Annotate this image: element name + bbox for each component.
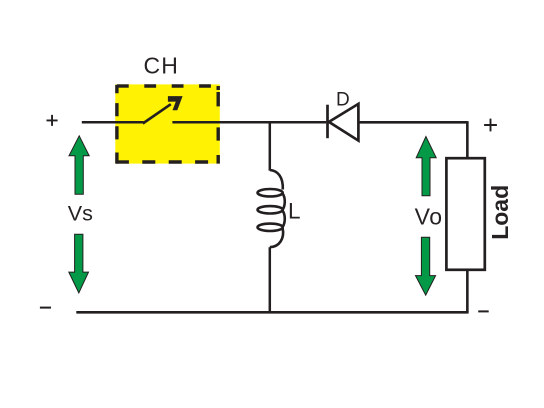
inductor L coil <box>258 170 285 247</box>
output positive terminal + <box>484 119 497 132</box>
switch blade <box>143 104 171 123</box>
wire: source positive terminal to switch pivot <box>82 121 144 124</box>
source negative terminal - <box>40 307 51 309</box>
wire: inductor to bottom rail <box>269 247 272 312</box>
node: switch/diode/inductor junction <box>269 122 272 170</box>
source voltage arrow Vs up <box>69 136 89 194</box>
label Vo <box>415 203 443 229</box>
source positive terminal + <box>47 115 58 126</box>
output negative terminal - <box>478 310 489 312</box>
output voltage arrow Vo up <box>416 137 436 196</box>
label CH <box>143 52 179 78</box>
svg-text:CH: CH <box>143 52 179 78</box>
wire: bottom rail <box>76 311 468 314</box>
switch CH dashed border <box>116 85 218 164</box>
switch CH highlight box (yellow fill) <box>115 84 220 163</box>
output voltage arrow Vo down <box>416 237 436 295</box>
load resistor rectangle <box>446 158 484 270</box>
wire: diode to output corner and down to load <box>358 121 467 158</box>
svg-text:Load: Load <box>487 185 513 240</box>
switch blade arrowhead <box>168 96 183 110</box>
label D <box>336 90 350 111</box>
svg-text:Vs: Vs <box>68 202 93 226</box>
label Vs <box>68 202 93 226</box>
svg-text:D: D <box>336 90 350 111</box>
label L <box>288 198 301 223</box>
label Load (rotated) <box>487 185 513 240</box>
diode D triangle <box>329 104 359 141</box>
svg-text:L: L <box>288 198 301 223</box>
wire: switch fixed contact to diode <box>172 121 326 124</box>
source voltage arrow Vs down <box>69 234 89 293</box>
svg-text:Vo: Vo <box>415 203 443 229</box>
diode D cathode bar <box>326 105 329 139</box>
wire: load bottom lead <box>466 270 469 313</box>
